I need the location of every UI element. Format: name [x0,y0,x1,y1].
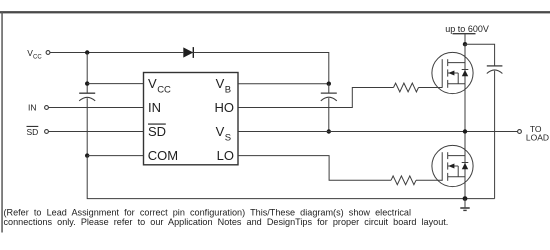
diode D1 (bootstrap diode) [183,47,193,58]
svg-text:LO: LO [217,148,234,163]
svg-text:CC: CC [157,85,171,96]
pin label SD (pin 3 left, active low with overline) [148,124,166,139]
transistor Q2 (low-side MOSFET) [432,145,473,186]
svg-text:SD: SD [148,124,166,139]
label TO LOAD [526,124,549,142]
wire R1 to Q1 gate [419,87,443,89]
node junction VB / D1 / C2 [327,82,331,86]
wire C1 branch down from VCC rail [86,53,88,94]
svg-text:up to 600V: up to 600V [445,24,489,34]
wire IN to IC [48,107,143,109]
terminal TO LOAD (open circle) [518,130,522,134]
svg-text:V: V [216,76,225,91]
wire ground return down and right (bottom rail) [87,156,494,199]
page frame left border [1,12,3,233]
wire COM pin to junction [87,155,143,157]
svg-text:S: S [225,132,231,143]
wire VB pin to bootstrap node [238,83,329,85]
node junction 600V bus / C3 branch [463,42,467,46]
pin label VS (pin 3 right) [216,124,232,144]
terminal label VCC [27,48,42,60]
svg-text:V: V [216,124,225,139]
wire VCC rail to diode anode [50,52,183,54]
pin label COM (pin 4 left) [148,148,178,163]
svg-text:COM: COM [148,148,178,163]
wire to IC VCC pin [87,83,143,85]
pin label VCC (pin 1 left) [148,76,171,96]
capacitor C2 (bootstrap, polarized) [321,84,337,132]
wire drain bus vertical (Q1 drain to Q2 source chain) [464,44,466,198]
node junction VS / half-bridge midpoint [463,129,467,133]
node junction COM / C1 / ground return [85,153,89,157]
svg-text:B: B [225,85,231,96]
wire HO pin up to gate resistor R1 [238,88,394,108]
svg-text:IN: IN [148,100,161,115]
wire diode cathode to VB node [193,53,328,84]
node junction VCC rail / C1 branch [85,50,89,54]
terminal IN (open circle) [45,106,49,110]
svg-text:SD: SD [27,127,39,137]
wire R2 to Q2 gate [416,179,442,181]
resistor R1 (high-side gate) [394,83,419,92]
wire SD to IC [48,131,143,133]
transistor Q1 (high-side MOSFET) [432,52,473,93]
pin label VB (pin 1 right) [216,76,232,96]
resistor R2 (low-side gate) [391,176,416,185]
wire LO pin down to gate resistor R2 [238,156,391,181]
svg-text:(Refer to Lead Assignment for: (Refer to Lead Assignment for correct pi… [4,207,412,217]
terminal VCC (open circle) [46,51,50,55]
svg-text:LOAD: LOAD [526,132,549,142]
node junction VCC pin tap [85,81,89,85]
page frame top border [0,11,550,13]
terminal label SD (overline) [27,126,39,137]
terminal SD (open circle) [45,130,49,134]
node junction C2 to VS line [327,129,331,133]
svg-text:CC: CC [33,54,42,60]
pin label LO (pin 4 right) [217,148,234,163]
svg-text:HO: HO [215,100,235,115]
node junction Q2 source / ground rail [463,196,468,201]
svg-text:connections only. Please refe: connections only. Please refer to our Ap… [4,217,449,227]
wire bus node to C3 [465,44,495,66]
wire VS pin to load terminal [238,131,518,133]
pin label IN (pin 2 left) [148,100,161,115]
svg-text:IN: IN [28,103,37,113]
wire 600V bar down to bus node [464,34,466,45]
IC U1 (gate driver) body [144,73,239,165]
caption text [4,207,449,227]
svg-text:V: V [148,76,157,91]
capacitor C1 (VCC decoupling, polarized) [79,93,95,155]
supply rail bar 600V [453,33,476,35]
capacitor C3 (bus decoupling, polarized) [487,66,503,199]
pin label HO (pin 2 right) [215,100,235,115]
ground [460,199,469,211]
